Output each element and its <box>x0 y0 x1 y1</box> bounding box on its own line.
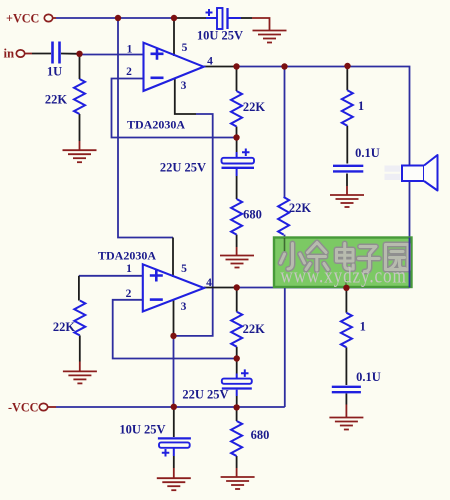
svg-text:5: 5 <box>182 42 188 54</box>
svg-text:680: 680 <box>243 208 262 222</box>
svg-text:22K: 22K <box>243 100 266 114</box>
svg-text:10U 25V: 10U 25V <box>119 423 165 437</box>
svg-text:10U 25V: 10U 25V <box>197 29 243 43</box>
svg-text:3: 3 <box>181 80 187 92</box>
svg-text:0.1U: 0.1U <box>356 370 381 384</box>
svg-text:4: 4 <box>206 277 212 289</box>
svg-text:1: 1 <box>127 44 133 56</box>
svg-text:22U 25V: 22U 25V <box>182 388 228 402</box>
svg-text:1: 1 <box>126 263 132 275</box>
svg-text:-VCC: -VCC <box>8 401 38 415</box>
svg-text:in: in <box>4 47 15 61</box>
svg-text:22K: 22K <box>53 320 76 334</box>
svg-text:1: 1 <box>358 99 364 113</box>
svg-text:1U: 1U <box>47 65 62 79</box>
svg-text:2: 2 <box>126 288 132 300</box>
svg-text:0.1U: 0.1U <box>355 146 380 160</box>
svg-text:22K: 22K <box>243 322 266 336</box>
svg-text:www.xydzy.com: www.xydzy.com <box>280 265 406 288</box>
svg-text:TDA2030A: TDA2030A <box>98 249 156 263</box>
svg-text:5: 5 <box>181 263 187 275</box>
svg-text:1: 1 <box>360 320 366 334</box>
svg-text:2: 2 <box>126 66 132 78</box>
svg-text:22K: 22K <box>289 201 312 215</box>
svg-text:4: 4 <box>207 56 213 68</box>
svg-text:680: 680 <box>251 428 270 442</box>
svg-text:22U 25V: 22U 25V <box>160 161 206 175</box>
svg-text:3: 3 <box>181 301 187 313</box>
svg-text:+VCC: +VCC <box>6 12 39 26</box>
svg-text:TDA2030A: TDA2030A <box>127 118 185 132</box>
svg-text:22K: 22K <box>45 93 68 107</box>
